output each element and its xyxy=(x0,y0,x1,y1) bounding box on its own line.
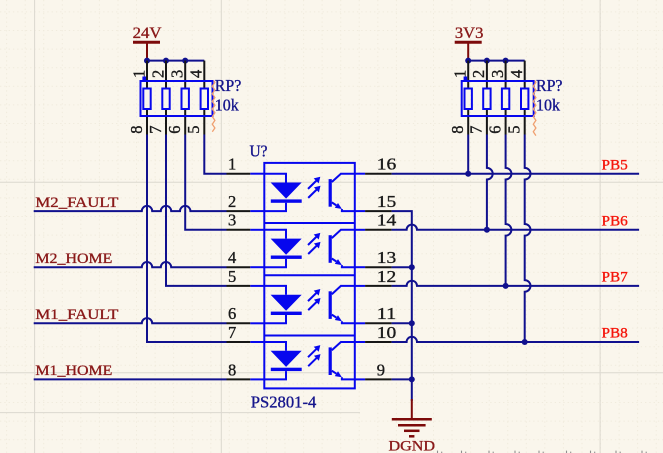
junction dot 24V bus / RP1 pin 2 xyxy=(163,58,169,64)
optocoupler channel 2 light arrows xyxy=(308,233,321,254)
svg-text:2: 2 xyxy=(148,70,167,78)
wire pin13 to common xyxy=(392,266,412,268)
U? pin 2 xyxy=(227,192,265,211)
U? pin 6 xyxy=(227,304,265,323)
power port 24V xyxy=(133,25,162,61)
svg-text:3: 3 xyxy=(168,70,187,78)
wire 24V bus xyxy=(147,60,204,62)
resistor RP1 element 3 xyxy=(182,89,189,110)
svg-text:3: 3 xyxy=(228,211,236,230)
svg-text:11: 11 xyxy=(377,304,397,323)
svg-text:8: 8 xyxy=(127,126,146,134)
svg-text:U?: U? xyxy=(250,142,268,161)
U? pin 16 xyxy=(355,155,397,174)
RP1 pin 5 lead and number xyxy=(184,109,204,135)
U? pin 11 xyxy=(355,304,397,323)
resistor RP1 element 2 xyxy=(162,89,169,110)
svg-text:12: 12 xyxy=(377,267,397,286)
svg-text:4: 4 xyxy=(507,70,526,78)
svg-text:RP?: RP? xyxy=(536,76,563,95)
optocoupler channel 4 LED xyxy=(264,342,301,379)
junction dot 3V3 bus / RP2 pin 1 xyxy=(465,58,471,64)
wire emitter common vertical xyxy=(392,211,412,401)
svg-text:9: 9 xyxy=(377,360,385,379)
junction dot emitter common / pin 13 xyxy=(409,264,415,270)
RP2 pin-1 marker xyxy=(464,77,468,81)
U? pin 10 xyxy=(355,323,397,342)
U? pin 12 xyxy=(355,267,397,286)
svg-text:6: 6 xyxy=(165,126,184,134)
optocoupler channel 1 light arrows xyxy=(308,177,321,198)
wire net M1_HOME xyxy=(34,378,227,380)
optocoupler channel 4 phototransistor xyxy=(329,342,355,379)
RP2 pin 5 lead and number xyxy=(505,109,525,135)
optocoupler channel 2 phototransistor xyxy=(329,230,355,267)
resistor pack RP1 outline xyxy=(141,81,213,116)
svg-text:1: 1 xyxy=(228,155,236,174)
RP2 pin 4 lead and number xyxy=(507,61,526,89)
svg-text:10k: 10k xyxy=(215,96,240,115)
junction dot PB5 pullup xyxy=(465,171,471,177)
U? pin 1 xyxy=(227,155,265,174)
junction dot 24V bus / RP1 pin 1 xyxy=(144,58,150,64)
resistor RP2 element 3 xyxy=(502,89,509,110)
svg-text:10k: 10k xyxy=(536,96,561,115)
svg-text:5: 5 xyxy=(228,267,236,286)
svg-text:3: 3 xyxy=(488,70,507,78)
svg-text:3V3: 3V3 xyxy=(455,25,484,42)
svg-text:2: 2 xyxy=(228,192,236,211)
RP1 pin 1 lead and number xyxy=(129,61,148,89)
RP1 pin 4 lead and number xyxy=(187,61,206,89)
svg-text:M2_HOME: M2_HOME xyxy=(35,251,112,267)
junction dot 24V bus / RP1 pin 3 xyxy=(182,58,188,64)
junction dot emitter common / pin 11 xyxy=(409,320,415,326)
junction dot emitter common / pin 9 xyxy=(409,376,415,382)
svg-text:M2_FAULT: M2_FAULT xyxy=(35,195,118,211)
svg-text:5: 5 xyxy=(184,126,203,134)
wire pin9 to common xyxy=(392,378,412,380)
svg-text:M1_HOME: M1_HOME xyxy=(35,363,112,379)
optocoupler channel 3 phototransistor xyxy=(329,286,355,323)
svg-text:PB6: PB6 xyxy=(602,214,629,230)
junction dot PB8 pullup xyxy=(522,339,528,345)
RP2 pin 7 lead and number xyxy=(467,109,487,135)
junction dot 3V3 bus / RP2 pin 3 xyxy=(503,58,509,64)
junction dot PB7 pullup xyxy=(503,283,509,289)
svg-text:M1_FAULT: M1_FAULT xyxy=(35,307,118,323)
resistor pack RP2 outline xyxy=(462,81,534,116)
U? pin 9 xyxy=(355,360,392,379)
svg-text:24V: 24V xyxy=(133,25,162,42)
wire RP1 pin 6 to U? pin 3 xyxy=(185,135,226,230)
svg-text:7: 7 xyxy=(467,126,486,134)
U? pin 13 xyxy=(355,248,397,267)
wire RP2 pin 8 to net PB5 xyxy=(467,135,469,174)
wire net PB8 xyxy=(392,337,639,342)
U? pin 8 xyxy=(227,360,265,379)
svg-text:5: 5 xyxy=(505,126,524,134)
svg-text:10: 10 xyxy=(377,323,397,342)
svg-text:DGND: DGND xyxy=(389,438,436,453)
wire net M1_FAULT xyxy=(34,318,227,323)
wire net PB6 xyxy=(392,225,639,230)
wire RP1 pin 8 to U? pin 7 xyxy=(147,135,227,343)
optocoupler channel 4 light arrows xyxy=(308,345,321,366)
RP2 pin 6 lead and number xyxy=(485,109,505,135)
RP2 pin 1 lead and number xyxy=(451,61,470,89)
RP2 pin 3 lead and number xyxy=(488,61,507,89)
wire pin11 to common xyxy=(392,322,412,324)
wire RP2 pin 6 to net PB7 xyxy=(506,135,512,286)
RP1 pin 3 lead and number xyxy=(168,61,187,89)
svg-text:PB5: PB5 xyxy=(602,157,628,173)
svg-text:8: 8 xyxy=(228,360,236,379)
optocoupler U? body box xyxy=(264,163,355,389)
wire net PB5 xyxy=(392,173,639,175)
resistor RP1 element 4 xyxy=(201,89,208,110)
U? pin 3 xyxy=(227,211,265,230)
RP2 error squiggle xyxy=(533,81,536,136)
svg-text:8: 8 xyxy=(448,126,467,134)
RP2 pin 2 lead and number xyxy=(469,61,488,89)
svg-text:PB7: PB7 xyxy=(602,270,629,286)
U? pin 14 xyxy=(355,211,397,230)
svg-text:4: 4 xyxy=(228,248,236,267)
svg-text:PB8: PB8 xyxy=(602,326,628,342)
RP1 pin-1 marker xyxy=(142,77,146,81)
svg-text:2: 2 xyxy=(469,70,488,78)
wire 3V3 bus xyxy=(468,60,525,62)
ground DGND symbol xyxy=(392,399,432,436)
svg-text:14: 14 xyxy=(377,211,397,230)
U? pin 5 xyxy=(227,267,265,286)
power port 3V3 xyxy=(455,25,484,61)
wire net M2_FAULT xyxy=(34,206,227,211)
optocoupler channel 1 LED xyxy=(264,174,301,211)
wire RP1 pin 7 to U? pin 5 xyxy=(166,135,227,286)
wire RP2 pin 5 to net PB8 xyxy=(525,135,531,343)
svg-text:RP?: RP? xyxy=(215,76,242,95)
svg-text:7: 7 xyxy=(146,126,165,134)
resistor RP1 element 1 xyxy=(143,89,150,110)
svg-text:7: 7 xyxy=(228,323,236,342)
U? pin 7 xyxy=(227,323,265,342)
svg-text:4: 4 xyxy=(187,70,206,78)
U? pin 4 xyxy=(227,248,265,267)
optocoupler channel 1 phototransistor xyxy=(329,174,355,211)
U? pin 15 xyxy=(355,192,397,211)
RP2 pin 8 lead and number xyxy=(448,109,468,135)
junction dot PB6 pullup xyxy=(484,227,490,233)
RP1 error squiggle xyxy=(212,81,215,132)
RP1 pin 6 lead and number xyxy=(165,109,185,135)
optocoupler channel 2 LED xyxy=(264,230,301,267)
resistor RP2 element 1 xyxy=(465,89,472,110)
resistor RP2 element 2 xyxy=(483,89,490,110)
svg-text:6: 6 xyxy=(485,126,504,134)
svg-text:PS2801-4: PS2801-4 xyxy=(251,392,316,411)
optocoupler channel 3 LED xyxy=(264,286,301,323)
wire RP1 pin 5 to U? pin 1 xyxy=(204,135,226,174)
RP1 pin 8 lead and number xyxy=(127,109,147,135)
svg-text:13: 13 xyxy=(377,248,397,267)
wire net M2_HOME xyxy=(34,262,227,267)
optocoupler channel 3 light arrows xyxy=(308,289,321,310)
wire RP2 pin 7 to net PB6 xyxy=(487,135,493,230)
resistor RP2 element 4 xyxy=(521,89,528,110)
optocoupler channel dividers xyxy=(264,223,355,336)
RP1 pin 2 lead and number xyxy=(148,61,167,89)
svg-text:16: 16 xyxy=(377,155,397,174)
svg-text:6: 6 xyxy=(228,304,236,323)
svg-text:15: 15 xyxy=(377,192,397,211)
wire net PB7 xyxy=(392,281,639,286)
RP1 pin 7 lead and number xyxy=(146,109,166,135)
junction dot 3V3 bus / RP2 pin 2 xyxy=(484,58,490,64)
